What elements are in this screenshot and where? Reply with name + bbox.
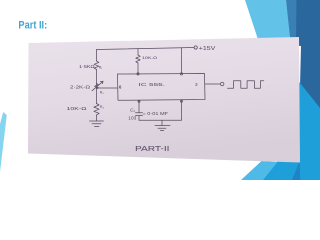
wire: R5 to IC top [137, 63, 139, 74]
IC U1 555 box [118, 74, 206, 101]
label: R4 [100, 105, 104, 109]
label: R1 [99, 65, 103, 69]
wire: left branch middle segment [96, 70, 98, 104]
wire: rail to R5 top pin 4 [137, 49, 139, 55]
label: R5 value [142, 55, 157, 60]
wire: +15V top rail [97, 48, 195, 50]
pin 8 mark [180, 73, 182, 75]
wire: left branch upper segment [96, 50, 98, 62]
label: 1.5K ohm [79, 64, 95, 69]
square wave output symbol [228, 81, 264, 88]
label: 0.01 MF [143, 111, 169, 116]
resistor R3 2.2K potentiometer zig and arrow [92, 81, 103, 91]
label: pin 3 [195, 82, 198, 87]
wire: left branch lower segment [96, 115, 98, 121]
label: 2.2K ohm [70, 85, 91, 90]
background decoration: bottom-right azure facet [262, 78, 320, 180]
paper photo of hand-drawn circuit [28, 37, 300, 163]
resistor R1 1.5K [94, 61, 99, 70]
label: +15V [199, 46, 216, 52]
label: R3 [100, 91, 104, 95]
pin 1 mark [138, 100, 140, 102]
wire: C1 to bottom rail [138, 116, 140, 121]
wire: node B to IC pin 6 [97, 87, 118, 89]
pin 4 mark [137, 73, 139, 75]
background decoration: bottom dark blue slice [292, 161, 300, 180]
background decoration: top-right light blue facet [245, 0, 292, 44]
label: 103 [128, 115, 137, 120]
label: C1 [130, 108, 135, 113]
background decoration: top-right medium blue sliver [286, 0, 301, 46]
slide title Part II: [0, 0, 320, 180]
ground: bottom rail [155, 120, 170, 130]
label: PART-II caption [135, 144, 170, 153]
svg-text:Part II:: Part II: [18, 19, 47, 31]
label: pin 6 [119, 85, 122, 90]
node: +15V terminal [194, 46, 197, 49]
capacitor C1 plates [136, 113, 143, 116]
pin 5 mark [181, 100, 183, 102]
wire: IC pin 3 output [205, 83, 220, 85]
label: 10K ohm [67, 106, 88, 111]
wire: rail to IC pin 8 [181, 48, 183, 74]
node: output terminal circle [221, 82, 224, 85]
wire: bottom rail [139, 119, 182, 121]
ground: left branch [90, 121, 104, 126]
background decoration: left edge cyan wedge [0, 112, 7, 172]
label: IC 555 [139, 82, 166, 88]
background decoration: bottom light blue strip [241, 161, 278, 180]
wire: IC pin 5 down [181, 100, 183, 121]
resistor R5 above IC [136, 55, 140, 63]
resistor R4 10K [94, 104, 99, 115]
wire: IC pin 1 to capacitor C1 [138, 100, 140, 112]
background decoration: top-right dark blue facet [296, 0, 320, 116]
